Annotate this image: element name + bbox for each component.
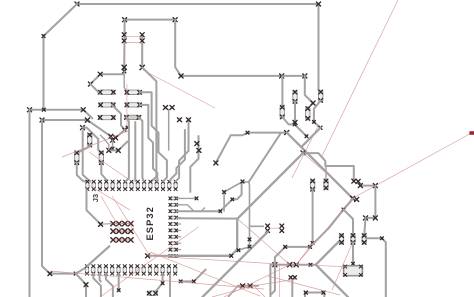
via x313 bbox=[311, 101, 315, 105]
ratsnest R21 bbox=[254, 279, 297, 286]
wire long diag Lb bbox=[176, 153, 303, 256]
via x313 y122 bbox=[313, 121, 316, 124]
via y265 r bbox=[309, 263, 312, 266]
via x382 bbox=[381, 237, 384, 240]
wire H y132 bbox=[231, 133, 287, 136]
wire J4p4 down bbox=[106, 274, 113, 297]
via x353 y264 bbox=[352, 262, 355, 265]
wire capF top lead bbox=[124, 71, 127, 91]
ratsnest R6 bbox=[100, 227, 199, 297]
wire H y286 bbox=[238, 285, 258, 287]
ratsnest R10 bbox=[296, 265, 345, 267]
via x295 bbox=[293, 120, 297, 124]
wire x142 to x156 bbox=[142, 68, 156, 182]
wire diag down from y265 bbox=[316, 265, 348, 297]
via x124 y130 bbox=[123, 128, 126, 131]
via x306 bbox=[305, 135, 308, 138]
ratsnest R2 bbox=[353, 134, 471, 199]
pad x352 y198 bbox=[351, 196, 355, 200]
via x312 end bbox=[311, 242, 314, 245]
ratsnest R19 bbox=[89, 152, 131, 181]
wire x343 branch bbox=[344, 210, 354, 234]
ratsnest R3b bbox=[124, 41, 142, 43]
via Ld b1 bbox=[219, 210, 222, 213]
resistor R-F bbox=[125, 90, 142, 94]
via junction x76 bbox=[74, 272, 77, 275]
pad x290 y277 bbox=[289, 276, 292, 279]
capacitor C-B bbox=[319, 90, 323, 102]
via at top left corner bbox=[75, 2, 79, 6]
wire bracket v bbox=[366, 186, 376, 218]
capacitor C-P bbox=[339, 234, 343, 245]
via x124 bottom2 bbox=[123, 70, 126, 73]
wire J4p6 down bbox=[118, 274, 120, 290]
via y281 r bbox=[192, 280, 195, 283]
wire y247 tail drop bbox=[271, 247, 285, 294]
wire C-M to J3 bbox=[101, 163, 106, 180]
module U1 ESP32 pad stubs bbox=[178, 198, 181, 256]
wire H y218 to pad4 bbox=[177, 217, 237, 219]
wire strand S2 bbox=[134, 122, 136, 181]
resistor R-G bbox=[99, 103, 115, 107]
wire C-Q down bbox=[352, 242, 354, 263]
wire x142 vertical bbox=[141, 35, 143, 68]
pad x110a bbox=[109, 134, 113, 138]
ratsnest R23 bbox=[268, 276, 340, 295]
capacitor C-L bbox=[75, 151, 79, 165]
wire diag x127-x115 bbox=[116, 128, 128, 138]
wire strand S6 bbox=[170, 130, 185, 181]
via y76 right bbox=[303, 74, 307, 78]
via bracket tl bbox=[358, 184, 362, 188]
wire top border bbox=[77, 4, 319, 90]
wire C-L to J3 pad1 bbox=[77, 163, 88, 182]
via y19 left bbox=[123, 18, 127, 22]
pad C-V b bbox=[280, 229, 284, 233]
via bend x50 bbox=[48, 272, 52, 276]
ratsnest R14 bbox=[126, 84, 128, 126]
wire H y247b bbox=[285, 246, 310, 248]
wire branch down x86 bbox=[76, 274, 86, 297]
pad pair B2 bbox=[186, 118, 190, 122]
via y256 left bbox=[146, 254, 150, 258]
via at top right corner bbox=[316, 2, 320, 6]
via y76 mid bbox=[280, 74, 284, 78]
via x215 bbox=[214, 161, 218, 165]
ratsnest R28 bbox=[212, 286, 254, 297]
capacitor C-R bbox=[362, 234, 366, 245]
via y19 right bbox=[173, 18, 177, 22]
via bracket br bbox=[373, 216, 377, 220]
wire grid to J4 bbox=[87, 246, 109, 266]
via y247 r bbox=[309, 245, 312, 248]
wire H y281 bbox=[181, 270, 206, 282]
capacitor C-Q bbox=[351, 234, 355, 245]
wire bracket down bbox=[364, 218, 365, 234]
pad R-T a bbox=[288, 263, 292, 267]
pad C-U a bbox=[266, 224, 270, 228]
wire bottom rect bbox=[305, 293, 324, 297]
wire C-R H lead bbox=[366, 238, 386, 297]
pad C-U b bbox=[266, 229, 270, 233]
ratsnest R20 bbox=[254, 286, 265, 297]
pad pair C2 bbox=[197, 148, 201, 152]
wire H y150 bbox=[109, 142, 128, 151]
via x249 end bbox=[248, 245, 251, 248]
ratsnest R11 bbox=[148, 256, 290, 265]
wire H y247 bbox=[310, 228, 329, 247]
wire diag from x320 bbox=[302, 128, 321, 147]
wire strand S7 bbox=[190, 136, 198, 192]
wire branch to J4 pad1 bbox=[76, 267, 87, 274]
via x100 y224 bbox=[99, 222, 103, 226]
via H120 corner bbox=[85, 118, 89, 122]
connector J4 pads bbox=[85, 265, 177, 276]
via H110 corner bbox=[81, 108, 85, 112]
wire strand S2b bbox=[139, 117, 144, 181]
via y132 r bbox=[285, 131, 289, 135]
wire long diag La bbox=[287, 133, 353, 199]
wire C-A down bbox=[294, 101, 296, 122]
via x224 bbox=[223, 191, 226, 194]
wire x305 down bbox=[305, 76, 313, 108]
resistor R-E bbox=[98, 90, 115, 94]
ratsnest R17 bbox=[150, 252, 260, 296]
wire F path bbox=[303, 153, 354, 180]
pad y286 a bbox=[241, 284, 245, 288]
wire strand S1 bbox=[126, 117, 129, 181]
via y132 jog bbox=[246, 131, 249, 134]
module U1 ESP32 pads bbox=[169, 197, 178, 258]
via bracket bl bbox=[363, 216, 367, 220]
wire H y256 left tail bbox=[148, 255, 179, 257]
ratsnest R4 bbox=[123, 45, 125, 64]
wire diag into R-E bbox=[90, 84, 98, 92]
via x242 y181 bbox=[241, 180, 244, 183]
ratsnest R8 bbox=[238, 219, 290, 265]
wire x251 chain bbox=[224, 182, 249, 250]
pad x142 b bbox=[140, 39, 144, 43]
wire H y226 bbox=[250, 225, 264, 227]
ratsnest R26 bbox=[269, 227, 281, 229]
pad pair A1 bbox=[163, 106, 167, 110]
wire x82 diag to C-M bbox=[83, 128, 102, 153]
IC U2 pad grid bbox=[111, 221, 133, 242]
wire top inner H y19 bbox=[125, 19, 176, 21]
via y247 l bbox=[284, 245, 287, 248]
via x320 y128 bbox=[319, 126, 322, 129]
wire J3p1 to grid bbox=[87, 190, 101, 225]
unrouted pad marker bbox=[469, 131, 474, 135]
resistor R-H bbox=[125, 103, 142, 107]
capacitor C-M bbox=[99, 151, 103, 165]
pad x356 y199 bbox=[355, 197, 359, 201]
pad rect r bbox=[322, 291, 325, 294]
via esp1 bbox=[195, 197, 198, 200]
wire x175 down bbox=[175, 20, 181, 76]
wire x124 vertical bbox=[123, 20, 125, 72]
wire H y265 bbox=[270, 264, 315, 266]
capacitor C-F bbox=[324, 179, 328, 190]
IC U3 body bbox=[344, 265, 363, 277]
via Ld b2 bbox=[231, 198, 234, 201]
pad x82 y128 bbox=[81, 126, 85, 130]
wire capK down bbox=[77, 145, 90, 153]
pad x353 y181 bbox=[352, 179, 356, 183]
pad x142 a bbox=[140, 33, 144, 37]
via y76 left bbox=[179, 74, 183, 78]
ratsnest R1 bbox=[322, 0, 398, 156]
via H110 left bbox=[27, 108, 31, 112]
ratsnest R9 bbox=[224, 265, 290, 297]
via x238 y250 bbox=[237, 249, 240, 252]
wire H y76 bbox=[181, 75, 305, 77]
ratsnest R3 bbox=[124, 35, 142, 37]
capacitor C-K bbox=[88, 133, 92, 147]
via x90 bend bbox=[88, 82, 92, 86]
wire x82 long vert bbox=[83, 131, 91, 182]
wire strand S4 bbox=[140, 92, 167, 181]
ratsnest R18 bbox=[332, 244, 352, 290]
pad rect l bbox=[304, 291, 307, 294]
resistor R-J selected bbox=[125, 115, 141, 119]
pad y286 b bbox=[248, 284, 252, 288]
ratsnest R29 bbox=[88, 185, 130, 211]
capacitor C-E bbox=[310, 179, 314, 191]
wire strand A-vert bbox=[168, 110, 170, 151]
wire J4p2 down bbox=[93, 274, 101, 297]
via x294 bbox=[293, 123, 296, 126]
pad C-V a bbox=[280, 224, 284, 228]
wire x282 down bbox=[281, 76, 283, 107]
wire diag up from y265 bbox=[316, 241, 339, 264]
via x249 bend bbox=[248, 238, 251, 241]
wire left vertical x42 bbox=[42, 120, 76, 274]
via x118 end bbox=[117, 289, 120, 292]
wire grid left lead bbox=[101, 223, 111, 226]
wire x112 down bbox=[112, 140, 114, 148]
via y150 l bbox=[107, 148, 111, 152]
wire esp pad2 lead bbox=[177, 205, 194, 211]
via x124 bottom1 bbox=[122, 65, 126, 69]
capacitor C-A bbox=[293, 90, 297, 103]
via x86 bend bbox=[84, 283, 88, 287]
via H120 left bbox=[40, 118, 44, 122]
ratsnest R14b bbox=[62, 131, 128, 157]
wire J4p14 down bbox=[169, 274, 171, 297]
wire x104 diag bbox=[101, 135, 109, 150]
via y256 bend bbox=[230, 254, 233, 257]
wire esp pad1 lead bbox=[177, 197, 197, 199]
via x100 y74 bbox=[98, 72, 102, 76]
ratsnest R24 bbox=[143, 70, 215, 108]
ratsnest R25 bbox=[296, 243, 312, 265]
resistor R-S bottom bbox=[147, 291, 157, 296]
wire steep diag bbox=[216, 135, 231, 163]
wire J4p13 down bbox=[156, 274, 162, 291]
wire staircase Ld bbox=[177, 182, 242, 211]
wire G-pad strand bbox=[112, 105, 125, 130]
via bracket tr bbox=[373, 184, 377, 188]
ratsnest R12 bbox=[292, 126, 318, 178]
pad x294 y277 bbox=[293, 276, 296, 279]
wire C-C down diag bbox=[282, 117, 306, 136]
wire y286 tail bbox=[228, 286, 238, 297]
pad pair A2 bbox=[170, 106, 174, 110]
pad x115 bbox=[114, 136, 118, 140]
wire y265 drop x270 bbox=[269, 265, 271, 297]
wire vert x292 bbox=[291, 280, 293, 297]
pad pair C1 bbox=[195, 142, 199, 146]
pad R-T b bbox=[294, 263, 298, 267]
svg-text:J3: J3 bbox=[91, 194, 100, 202]
pad x124 a bbox=[122, 33, 126, 37]
via x163 end bbox=[161, 282, 164, 285]
pad x358 y181 bbox=[356, 179, 360, 183]
via x142 bottom bbox=[140, 65, 144, 69]
via x343 bbox=[342, 208, 345, 211]
wire x312 down bbox=[312, 189, 314, 243]
pad pair B1 bbox=[177, 118, 181, 122]
wire C-B down bbox=[314, 100, 321, 127]
wire Lc diag bbox=[201, 232, 268, 297]
wire left border bbox=[44, 4, 78, 109]
via F start bbox=[301, 151, 305, 155]
via H110 junction bbox=[42, 108, 45, 111]
via x112 end bbox=[111, 147, 114, 150]
pad x112b bbox=[111, 138, 115, 142]
wire C-F top lead bbox=[325, 166, 327, 180]
ratsnest R16 bbox=[112, 196, 151, 257]
ratsnest R22 bbox=[279, 264, 281, 297]
ratsnest R15 bbox=[101, 196, 121, 231]
wire H line y120 bbox=[42, 120, 111, 136]
pad x127 bbox=[126, 126, 129, 129]
wire x352 down diag bbox=[329, 199, 353, 228]
wire left vertical x29 bbox=[29, 110, 31, 297]
wire H line y110 bbox=[30, 110, 93, 119]
ratsnest R5 bbox=[50, 271, 264, 289]
connector J3 pads bbox=[86, 180, 178, 191]
wire steep link bbox=[249, 133, 281, 182]
capacitor C-D bbox=[306, 107, 310, 121]
ratsnest R7 bbox=[296, 199, 352, 265]
via y150 r bbox=[116, 148, 120, 152]
ratsnest R13 bbox=[304, 154, 332, 178]
wire esp pad3 stub bbox=[202, 208, 205, 211]
capacitor C-C bbox=[280, 105, 284, 118]
resistor R-I bbox=[98, 115, 115, 119]
wire bracket bbox=[360, 185, 375, 187]
via y281 l bbox=[179, 280, 182, 283]
svg-text:ESP32: ESP32 bbox=[145, 206, 155, 240]
wire J4p3 down bbox=[100, 274, 101, 282]
via bend left border bbox=[42, 35, 45, 38]
wire strand S5 bbox=[176, 121, 189, 181]
via y265 l bbox=[273, 263, 277, 267]
pad x124 b bbox=[122, 39, 126, 43]
wire diag x90-x124 bbox=[90, 74, 123, 84]
wire strand S3 bbox=[140, 105, 158, 181]
